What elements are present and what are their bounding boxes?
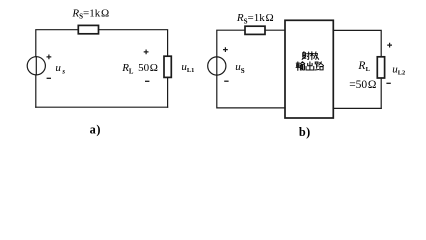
wire: circuit b segment RS to emitter-follower box — [265, 29, 285, 31]
voltage source uS (circuit b) — [208, 57, 226, 75]
resistor RS (circuit b) — [245, 26, 265, 34]
glyph 极 — [311, 52, 319, 60]
voltage source us (circuit a) — [27, 57, 45, 75]
glyph 出 — [306, 62, 314, 70]
svg-text:RS=1kΩ: RS=1kΩ — [236, 12, 274, 25]
glyph 输 — [296, 62, 305, 71]
label + of RL (circuit b) — [387, 43, 392, 48]
label + of source us (circuit a) — [47, 55, 52, 60]
resistor RL (circuit a) — [164, 56, 171, 77]
text 射极 (hand-drawn glyphs, line 1 in emitter follower box) — [302, 52, 319, 60]
wire: circuit b bottom-left rail (source to box) — [217, 75, 285, 108]
emitter follower block (射极输出路) — [285, 20, 333, 118]
wire: circuit b segment box output to RL node — [333, 30, 381, 56]
svg-text:a): a) — [90, 122, 101, 136]
wire: circuit a right lower segment (RL to bottom rail) — [167, 77, 169, 107]
wire: circuit a left lower segment (source to bottom rail) — [35, 75, 37, 107]
svg-text:uS: uS — [235, 61, 245, 75]
label - of RL (circuit a) — [145, 80, 149, 82]
glyph 路 — [315, 62, 324, 70]
label - of source uS (circuit b) — [224, 80, 228, 82]
wire: circuit b bottom-right rail (box to RL branch) — [333, 107, 381, 109]
label - of source us (circuit a) — [47, 77, 51, 79]
glyph 射 — [302, 52, 310, 60]
svg-text:us: us — [55, 62, 65, 76]
label - of RL (circuit b) — [386, 82, 390, 84]
svg-text:uL2: uL2 — [392, 63, 405, 76]
label + of source uS (circuit b) — [223, 47, 228, 52]
svg-text:RL50Ω: RL50Ω — [121, 62, 158, 75]
wire: circuit b top-left segment (source to RS) — [217, 30, 245, 57]
wire: circuit a top-left segment (node from source to RS) — [36, 30, 79, 57]
svg-text:=50Ω: =50Ω — [349, 79, 376, 91]
svg-text:b): b) — [299, 125, 311, 139]
svg-text:uL1: uL1 — [181, 61, 194, 74]
resistor RL (circuit b) — [377, 57, 384, 78]
text 输出路 (hand-drawn glyphs, line 2 in emitter follower box) — [296, 62, 323, 71]
resistor RS (circuit a) — [78, 25, 98, 33]
wire: circuit a top-right segment (RS to RL node) — [99, 30, 168, 57]
wire: circuit b right lower segment (RL to bottom rail) — [380, 78, 382, 108]
wire: circuit a bottom rail — [36, 106, 168, 108]
label + of RL (circuit a) — [144, 50, 149, 55]
svg-text:RL: RL — [357, 60, 370, 73]
svg-text:RS=1kΩ: RS=1kΩ — [71, 8, 109, 21]
